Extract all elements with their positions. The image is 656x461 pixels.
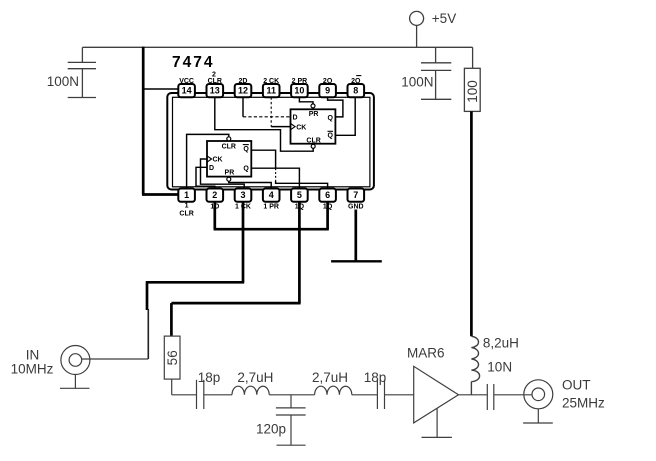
svg-text:18p: 18p (364, 370, 387, 385)
svg-text:100N: 100N (401, 75, 433, 90)
svg-text:1Q: 1Q (295, 204, 305, 211)
svg-text:6: 6 (325, 190, 330, 200)
svg-text:PR: PR (225, 170, 235, 177)
svg-text:2 PR: 2 PR (292, 78, 308, 85)
svg-text:CLR: CLR (208, 78, 222, 85)
svg-text:2: 2 (212, 190, 217, 200)
svg-text:7474: 7474 (172, 54, 214, 71)
svg-text:10N: 10N (487, 360, 512, 375)
svg-text:Q: Q (328, 133, 334, 140)
svg-text:CK: CK (296, 125, 306, 132)
svg-text:13: 13 (210, 86, 220, 96)
svg-text:OUT: OUT (562, 378, 591, 393)
svg-text:Q: Q (243, 146, 249, 153)
svg-text:5: 5 (297, 190, 302, 200)
svg-text:MAR6: MAR6 (407, 346, 445, 361)
svg-text:4: 4 (269, 190, 274, 200)
svg-text:2 CK: 2 CK (263, 78, 279, 85)
svg-text:1 CK: 1 CK (235, 204, 251, 211)
svg-text:D: D (209, 165, 214, 172)
svg-text:1D: 1D (210, 204, 219, 211)
svg-text:CLR: CLR (306, 137, 320, 144)
svg-text:2D: 2D (239, 78, 248, 85)
svg-text:8: 8 (353, 86, 358, 96)
svg-text:100: 100 (465, 80, 480, 103)
svg-text:12: 12 (238, 86, 248, 96)
svg-text:3: 3 (240, 190, 245, 200)
svg-text:56: 56 (165, 350, 180, 365)
svg-text:PR: PR (309, 111, 319, 118)
svg-text:CK: CK (213, 157, 223, 164)
svg-text:Q: Q (243, 166, 249, 173)
svg-text:2,7uH: 2,7uH (237, 370, 273, 385)
svg-text:14: 14 (182, 86, 192, 96)
svg-text:2,7uH: 2,7uH (312, 370, 348, 385)
svg-text:1Q: 1Q (323, 204, 333, 211)
svg-text:VCC: VCC (179, 78, 194, 85)
svg-text:CLR: CLR (222, 144, 236, 151)
svg-text:11: 11 (266, 86, 276, 96)
svg-text:GND: GND (348, 204, 364, 211)
svg-text:1: 1 (185, 203, 189, 210)
svg-text:Q: Q (328, 115, 334, 122)
svg-text:D: D (293, 115, 298, 122)
svg-text:CLR: CLR (179, 211, 193, 218)
svg-text:2Q: 2Q (351, 78, 361, 85)
svg-text:8,2uH: 8,2uH (483, 336, 519, 351)
svg-text:9: 9 (325, 86, 330, 96)
svg-text:7: 7 (353, 190, 358, 200)
svg-text:IN: IN (26, 348, 40, 363)
svg-text:1 PR: 1 PR (263, 204, 279, 211)
svg-text:120p: 120p (256, 421, 286, 436)
svg-text:1: 1 (184, 190, 189, 200)
svg-text:+5V: +5V (432, 11, 456, 26)
svg-text:2Q: 2Q (323, 78, 333, 85)
svg-text:10MHz: 10MHz (11, 362, 54, 377)
svg-text:100N: 100N (47, 74, 79, 89)
svg-text:10: 10 (294, 86, 304, 96)
svg-text:25MHz: 25MHz (562, 395, 605, 410)
svg-text:18p: 18p (198, 370, 221, 385)
